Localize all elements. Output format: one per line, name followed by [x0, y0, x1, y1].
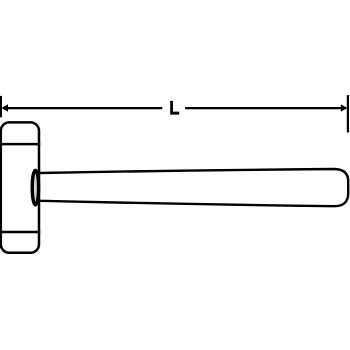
handle end ellipse — [32, 170, 38, 205]
extension line left — [0, 96, 2, 117]
label L — [170, 101, 179, 115]
dimension line right segment — [185, 107, 346, 109]
arrowhead left — [2, 104, 8, 112]
arrowhead right — [341, 104, 347, 112]
head face line bottom — [0, 231, 40, 234]
handle outline — [40, 169, 348, 206]
hammer head outline — [1, 122, 39, 252]
extension line right — [347, 95, 349, 132]
head face line top — [0, 143, 40, 146]
dimension line left segment — [3, 107, 162, 109]
